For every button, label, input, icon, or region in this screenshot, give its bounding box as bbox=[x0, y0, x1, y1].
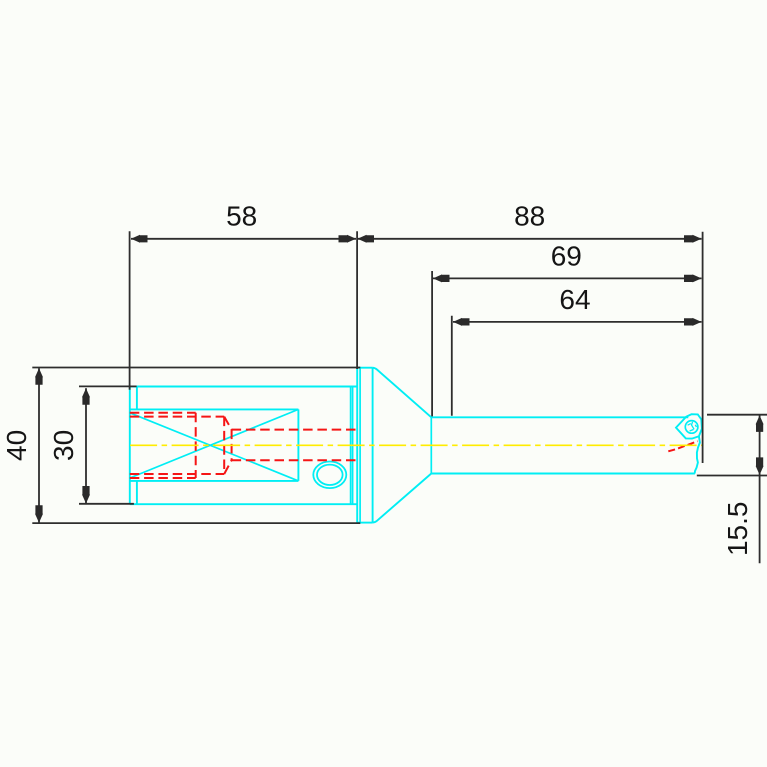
arrow 88 right bbox=[684, 235, 702, 243]
dimension 58 line bbox=[131, 238, 356, 240]
dimension 15.5 extension top bbox=[707, 414, 767, 416]
dimension 30 line bbox=[85, 388, 87, 503]
dimension 15.5 line bbox=[759, 415, 761, 564]
svg-text:58: 58 bbox=[226, 201, 257, 232]
dimension 40 extension bottom bbox=[32, 522, 360, 524]
holder body outline (Ø30 shank of drill holder) bbox=[130, 387, 357, 505]
centerline bbox=[130, 444, 703, 446]
dimension 88 line bbox=[358, 238, 702, 240]
arrow 40 bottom bbox=[35, 505, 43, 523]
dimension 15.5 extension bottom bbox=[697, 475, 767, 477]
svg-text:88: 88 bbox=[514, 201, 545, 232]
pocket cross diagonal 1 bbox=[130, 413, 299, 481]
hidden cutting edge line at tip bbox=[668, 441, 697, 451]
cone top edge bbox=[373, 368, 432, 418]
clamping screw hole ellipse bbox=[313, 462, 346, 489]
drill tube top edge bbox=[431, 416, 688, 418]
pocket rectangle bbox=[130, 409, 299, 481]
arrow 58 left bbox=[131, 235, 148, 243]
dimension 64 line bbox=[453, 321, 702, 323]
arrow 64 left bbox=[453, 318, 470, 326]
arrow 64 right bbox=[684, 318, 702, 326]
insert clamp screw bbox=[685, 421, 698, 434]
dimension 40 extension top bbox=[32, 367, 360, 369]
holder left end chamfer line bbox=[136, 387, 138, 505]
pocket cross diagonal 2 bbox=[130, 409, 299, 478]
svg-text:64: 64 bbox=[559, 284, 590, 315]
flange Ø40 bbox=[357, 368, 372, 523]
cone-shank junction line bbox=[430, 417, 432, 473]
dimension 30 extension bottom bbox=[79, 503, 134, 505]
svg-text:40: 40 bbox=[1, 430, 32, 461]
dimension 64 extension line bbox=[451, 316, 453, 416]
svg-text:15.5: 15.5 bbox=[722, 502, 753, 557]
right extension line 88/69/64 bbox=[702, 232, 704, 463]
drill point edge below insert bbox=[695, 436, 700, 473]
arrow 30 bottom bbox=[82, 486, 90, 504]
svg-text:30: 30 bbox=[48, 430, 79, 461]
arrow 30 top bbox=[82, 388, 90, 405]
dimension 40 line bbox=[38, 368, 40, 523]
svg-text:69: 69 bbox=[551, 240, 582, 271]
arrow 15.5 top bbox=[756, 415, 764, 432]
relief groove lines before flange bbox=[351, 387, 353, 505]
flange chamfer line bbox=[359, 368, 361, 523]
arrow 15.5 bottom bbox=[756, 457, 764, 475]
arrow 40 top bbox=[35, 368, 43, 385]
hidden bore Ø15 with round end bbox=[130, 417, 232, 474]
dimension 58 extension line left bbox=[129, 231, 131, 389]
arrow 58 right bbox=[339, 235, 357, 243]
dimension 69 extension line bbox=[431, 271, 433, 416]
dimension 69 line bbox=[433, 277, 702, 279]
hidden bore Ø17 top bbox=[130, 413, 196, 478]
hidden coolant hole lines bbox=[232, 430, 357, 461]
cone bottom edge bbox=[373, 474, 432, 523]
arrow 69 left bbox=[433, 274, 450, 282]
dimension 30 extension top bbox=[79, 385, 137, 387]
arrow 69 right bbox=[684, 274, 702, 282]
arrow 88 left bbox=[358, 235, 375, 243]
drill tube bottom edge bbox=[431, 473, 695, 475]
shared extension line 58/88 bbox=[356, 231, 358, 369]
peripheral insert outline bbox=[676, 414, 702, 438]
